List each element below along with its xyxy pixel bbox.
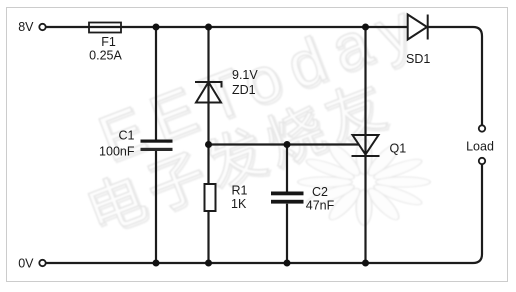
svg-text:R1: R1 <box>232 184 248 198</box>
svg-text:C2: C2 <box>312 185 328 199</box>
svg-text:F1: F1 <box>101 35 116 49</box>
svg-text:1K: 1K <box>231 197 247 211</box>
svg-text:ZD1: ZD1 <box>232 83 256 97</box>
svg-text:Load: Load <box>466 140 494 154</box>
svg-text:100nF: 100nF <box>99 145 135 159</box>
svg-text:C1: C1 <box>119 129 135 143</box>
svg-text:47nF: 47nF <box>306 199 335 213</box>
svg-text:8V: 8V <box>18 20 34 34</box>
svg-text:0V: 0V <box>18 257 34 271</box>
svg-text:9.1V: 9.1V <box>232 68 258 82</box>
svg-text:0.25A: 0.25A <box>89 49 122 63</box>
svg-text:SD1: SD1 <box>406 52 430 66</box>
svg-text:Q1: Q1 <box>390 142 407 156</box>
